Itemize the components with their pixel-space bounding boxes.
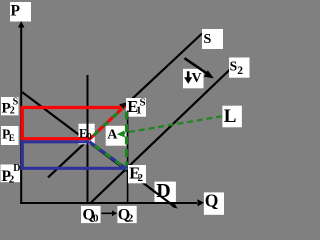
vertical marker line at Q2 [127,111,129,203]
svg-text:D: D [156,180,170,202]
label box S2 [229,58,250,78]
price axis P [18,21,25,204]
arrow Q0 to Q2 [102,211,118,217]
label box P [10,2,31,22]
green dashes over E0-E1S segment [89,108,123,140]
supply curve S [48,34,202,178]
red dashed segment E0 to E1S along S [89,108,123,140]
red vertical segment on P axis (P2S to PE) [21,106,24,140]
label box PE [1,126,19,145]
demand curve D segment over D label box [150,188,176,207]
blue segment E0 to E2 along D [90,142,128,170]
vertical marker line at Q0 [87,75,89,202]
label box V [183,69,204,89]
quantity axis Q [20,199,204,206]
label box Q0 [81,206,101,223]
svg-text:D: D [13,163,20,174]
svg-text:S: S [230,58,238,73]
red price line P2S with arrow to E1S [21,104,127,112]
svg-text:0: 0 [87,132,92,142]
label box Q [204,192,224,214]
demand curve D [22,92,176,207]
svg-text:L: L [224,106,237,127]
label box D [155,182,176,203]
svg-text:V: V [192,71,202,86]
svg-text:2: 2 [9,174,15,186]
label box E0 [79,124,95,145]
svg-text:2: 2 [138,172,144,184]
green dashed vertical E1S to E2 [125,112,128,167]
svg-text:E: E [9,133,15,143]
label box E2 [128,165,146,183]
svg-text:S: S [140,96,146,108]
label box P2D [1,165,21,183]
blue vertical segment on P axis (PE to P2D) [21,140,24,170]
svg-text:0: 0 [93,212,99,224]
svg-text:2: 2 [237,65,243,77]
green dashed arrow L pointing to A [117,116,222,137]
label box S [202,29,223,49]
label box E1S [126,98,146,117]
label box P2S [1,97,19,115]
green dashes over E0-E2 segment [90,142,128,170]
label box A [106,126,127,146]
dark arrowhead at E1S [119,102,126,108]
svg-text:S: S [204,32,212,47]
svg-text:A: A [107,128,118,143]
red price line PE (to E0) [21,137,90,140]
svg-text:S: S [13,96,19,107]
svg-text:P: P [11,2,21,19]
svg-text:Q: Q [205,190,219,210]
label box Q2 [117,206,136,223]
supply curve S2 (shifted by subsidy V) [91,68,232,203]
svg-text:2: 2 [128,212,134,224]
text V with down arrow [184,71,192,84]
blue price line PE level (to E0) [21,140,90,143]
label box L [222,106,242,128]
shift arrow V (from S to S2) [185,58,214,78]
blue price line P2D (to E2) [21,167,130,170]
